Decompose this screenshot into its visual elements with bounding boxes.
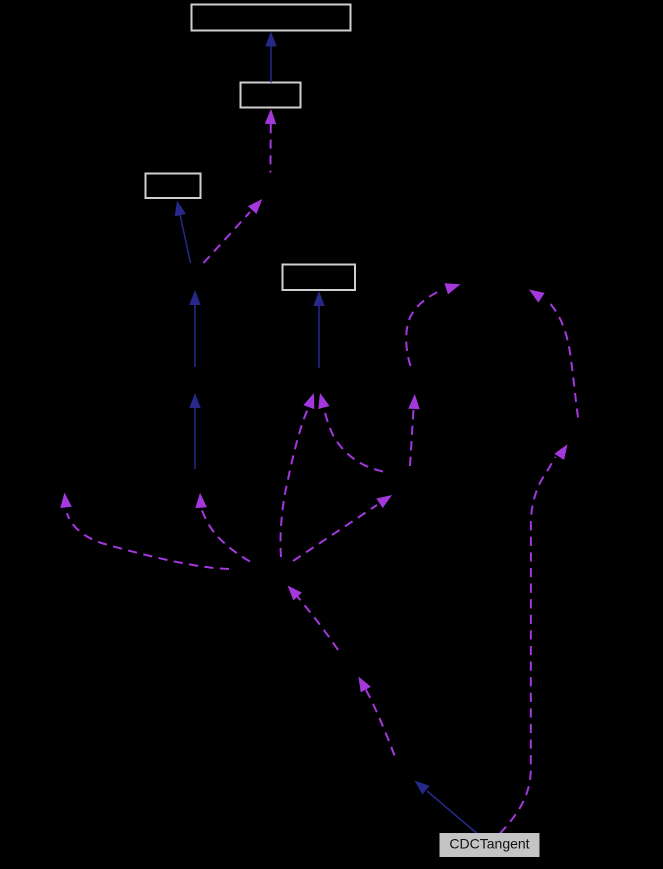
usage arrow T to R	[529, 290, 578, 418]
inheritance arrow W to X	[189, 290, 200, 367]
usage arrow Q to R	[406, 283, 460, 366]
box node D	[283, 265, 356, 291]
usage arrow P to M	[318, 393, 383, 472]
usage arrow X to Y	[204, 199, 263, 263]
usage arrow H to V	[195, 493, 250, 562]
usage arrow Y to B	[265, 109, 277, 173]
box node B	[241, 83, 301, 108]
inheritance arrow CDCTangent to Z	[415, 781, 478, 834]
usage arrow Y2 to H	[288, 586, 339, 651]
box node C	[146, 174, 201, 199]
svg-text:CDCTangent: CDCTangent	[449, 836, 529, 852]
usage arrow H to M	[281, 393, 315, 557]
usage arrow H to P	[293, 495, 392, 561]
usage arrow Z to Y2	[359, 677, 395, 756]
inheritance arrow V to W	[189, 393, 200, 469]
node CDCTangent	[440, 833, 540, 857]
usage arrow P to Q	[408, 394, 420, 466]
inheritance arrow B to A	[265, 32, 276, 83]
inheritance arrow M to D	[313, 291, 324, 368]
usage arrow H to L	[60, 493, 229, 570]
usage arrow CDCTangent to T	[500, 444, 568, 833]
inheritance arrow X to C	[175, 201, 191, 264]
box node A	[192, 5, 351, 31]
